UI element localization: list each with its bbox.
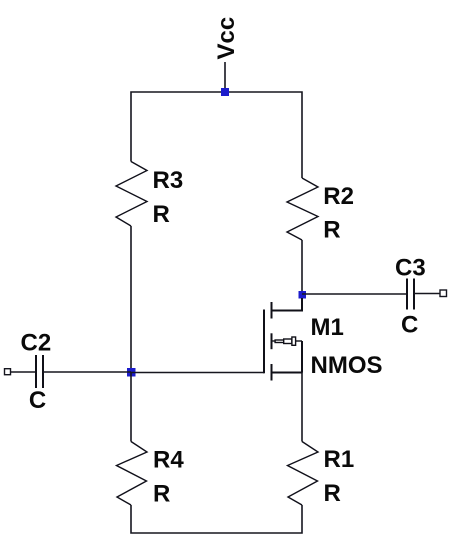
capacitor C3	[407, 279, 414, 310]
svg-text:R: R	[153, 481, 170, 508]
junction drain node	[299, 291, 307, 299]
wire R3 to gate node	[130, 226, 132, 373]
wire Vcc stub	[224, 62, 226, 92]
drain contact bar	[271, 302, 273, 319]
transistor M1	[264, 298, 302, 381]
svg-text:NMOS: NMOS	[311, 352, 383, 379]
capacitor C2	[36, 355, 43, 388]
port input	[5, 369, 11, 375]
wire C2 to gate node	[43, 371, 131, 373]
svg-text:Vcc: Vcc	[213, 17, 240, 60]
wire input port to C2	[11, 371, 37, 373]
svg-text:R4: R4	[153, 447, 184, 474]
bulk contact bar	[271, 333, 273, 349]
bulk to source connection	[301, 341, 303, 373]
wire gate node to R4	[130, 373, 132, 442]
junction Vcc rail node	[221, 88, 229, 96]
wire C3 to output port	[414, 293, 440, 295]
resistor R3	[116, 162, 147, 227]
wire R1 to source	[301, 373, 303, 442]
bulk lead arrow	[272, 337, 303, 345]
svg-text:R2: R2	[323, 183, 354, 210]
source lead	[272, 372, 303, 374]
svg-text:R1: R1	[324, 446, 355, 473]
wire bottom rail	[131, 505, 302, 533]
resistor R4	[117, 442, 148, 506]
svg-text:R: R	[153, 201, 170, 228]
svg-text:C: C	[29, 387, 46, 414]
svg-text:R3: R3	[153, 167, 184, 194]
wire top rail	[131, 92, 302, 178]
source contact bar	[271, 364, 273, 381]
svg-text:R: R	[323, 216, 340, 243]
resistor R1	[288, 442, 319, 506]
wire drain node to C3	[302, 293, 407, 295]
svg-text:C2: C2	[21, 330, 52, 357]
svg-text:M1: M1	[311, 314, 344, 341]
port output	[440, 290, 447, 297]
wire gate node to M1 gate	[131, 372, 264, 374]
drain lead	[272, 298, 303, 311]
svg-text:C: C	[401, 312, 418, 339]
svg-text:C3: C3	[395, 255, 426, 282]
svg-text:R: R	[324, 480, 341, 507]
wire R2 to drain node	[301, 240, 303, 295]
resistor R2	[287, 178, 318, 240]
junction gate node	[127, 368, 136, 377]
gate plate	[263, 310, 265, 374]
